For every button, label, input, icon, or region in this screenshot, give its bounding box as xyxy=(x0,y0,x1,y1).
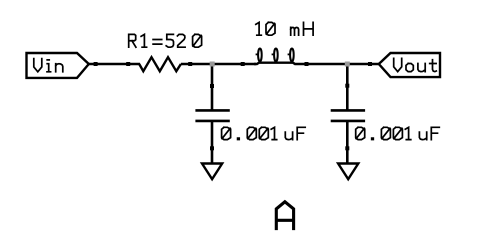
value label R1=520 xyxy=(129,34,202,47)
junction node 1 (top of C1) xyxy=(210,62,215,67)
pin dot resistor R1 left pin xyxy=(126,62,130,66)
sheet label A xyxy=(276,202,293,229)
value label 0.001uF (C1) xyxy=(222,127,306,139)
pin dot inductor left pin xyxy=(241,62,245,66)
capacitor C1 xyxy=(195,110,229,121)
net label flag Vout xyxy=(379,53,440,77)
wire inductor to Vout tip xyxy=(300,63,380,66)
pin dot resistor R1 right pin xyxy=(188,62,192,66)
ground (left) xyxy=(202,164,222,180)
pin dot Vin flag pin xyxy=(94,62,98,66)
value label 0.001uF (C2) xyxy=(356,127,440,139)
pin dot Vout flag pin xyxy=(368,62,372,66)
inductor L1 xyxy=(254,49,300,65)
junction node 2 (top of C2) xyxy=(345,62,350,67)
wire junction 2 down to C2 xyxy=(346,64,349,110)
wire C2 down to ground xyxy=(346,121,349,164)
pin dot inductor right pin xyxy=(305,62,309,66)
value label 10 mH xyxy=(256,22,313,35)
pin dot capacitor C1 bottom pin xyxy=(210,146,214,150)
wire C1 down to ground xyxy=(211,121,214,164)
ground (right) xyxy=(338,164,358,180)
wire resistor to inductor xyxy=(181,63,256,66)
pin dot capacitor C2 top pin xyxy=(345,84,349,88)
pin dot capacitor C2 bottom pin xyxy=(345,146,349,150)
capacitor C2 xyxy=(331,110,365,121)
net label flag Vin xyxy=(27,53,89,78)
wire junction 1 down to C1 xyxy=(211,64,214,110)
pin dot capacitor C1 top pin xyxy=(210,84,214,88)
wire Vin tip to resistor xyxy=(88,63,140,66)
resistor R1 xyxy=(139,57,181,71)
